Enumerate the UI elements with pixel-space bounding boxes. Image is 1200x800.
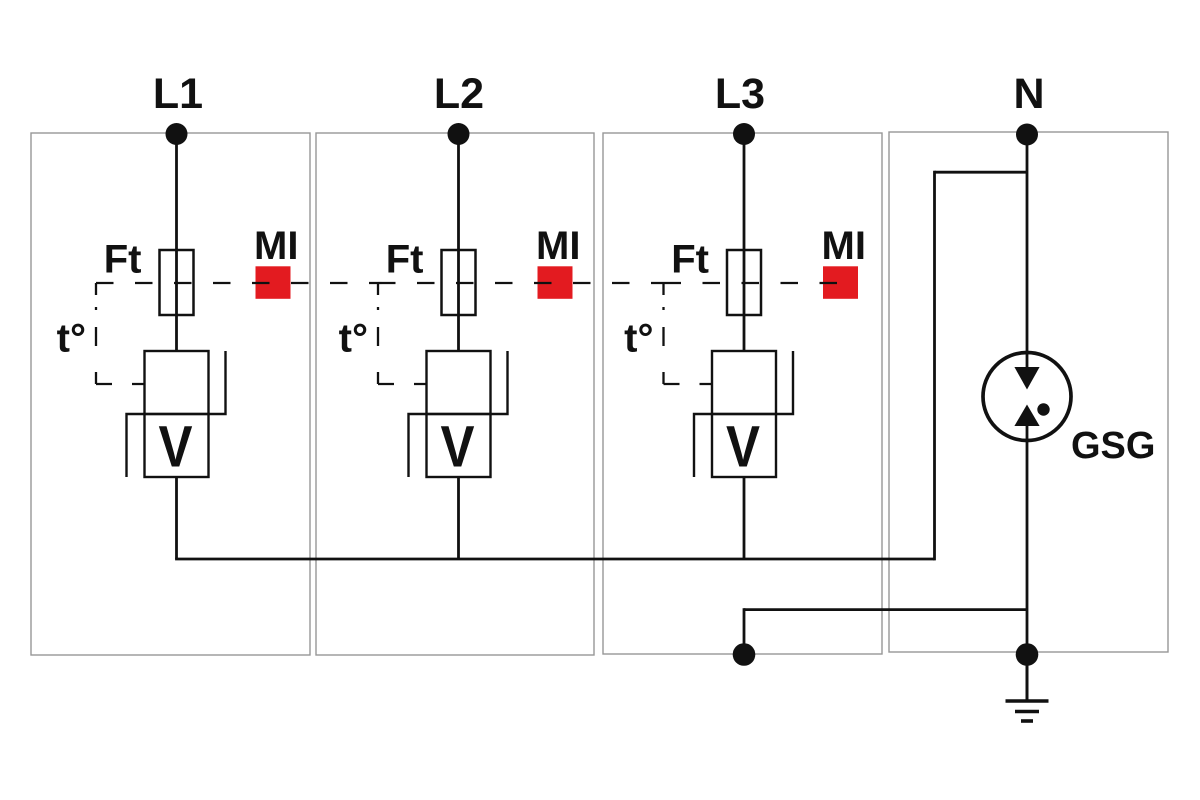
status indicator MI red square (module L3) bbox=[823, 266, 858, 299]
node ground junction (below N module) bbox=[1016, 643, 1039, 666]
varistor upper body (module L3) bbox=[712, 351, 776, 414]
varistor upper body (module L2) bbox=[427, 351, 491, 414]
svg-text:Ft: Ft bbox=[386, 238, 424, 282]
GSG lower electrode arrow (points up) bbox=[1014, 405, 1039, 427]
status indicator MI red square (module L2) bbox=[538, 266, 573, 299]
thermal sensing dashed bracket t-deg vertical (module L2) bbox=[377, 283, 379, 384]
svg-text:V: V bbox=[726, 415, 760, 480]
wire L2 terminal down through fuse to varistor bbox=[457, 134, 460, 351]
thermal sensing dashed link to varistor (module L3) bbox=[664, 383, 713, 385]
ground symbol bar 1 bbox=[1006, 699, 1049, 703]
svg-text:Ft: Ft bbox=[104, 238, 142, 282]
fuse/thermal disconnect Ft (module L1) bbox=[160, 250, 194, 315]
wire earth terminal riser (bottom node up to link) bbox=[743, 608, 746, 654]
wire GSG bottom down to earth node bbox=[1026, 441, 1029, 655]
wire PE bus horizontal (varistor commons) bbox=[175, 558, 934, 561]
status indicator MI red square (module L1) bbox=[256, 266, 291, 299]
svg-text:t°: t° bbox=[339, 317, 368, 361]
thermal sensing dashed link to varistor (module L1) bbox=[96, 383, 145, 385]
GSG wire from lower electrode bbox=[1026, 425, 1029, 442]
svg-text:t°: t° bbox=[57, 317, 86, 361]
varistor disconnect bracket right (module L3) bbox=[776, 351, 793, 414]
wire L3 terminal down through fuse to varistor bbox=[743, 134, 746, 351]
dashed signalling line module 2 (t-deg to MI, crosses fuse) bbox=[378, 282, 664, 284]
thermal sensing dashed bracket t-deg vertical (module L1) bbox=[95, 283, 97, 384]
varistor upper body (module L1) bbox=[145, 351, 209, 414]
wire N terminal down to GSG bbox=[1026, 135, 1029, 353]
wire L3 varistor bottom to PE bus bbox=[743, 477, 746, 559]
varistor disconnect bracket right (module L1) bbox=[209, 351, 226, 414]
fuse/thermal disconnect Ft (module L3) bbox=[727, 250, 761, 315]
svg-text:L3: L3 bbox=[715, 70, 765, 118]
node earth terminal (bottom centre) bbox=[733, 643, 756, 666]
ground symbol bar 2 bbox=[1015, 710, 1039, 714]
svg-text:L2: L2 bbox=[434, 70, 484, 118]
svg-text:MI: MI bbox=[536, 224, 580, 268]
varistor disconnect bracket left (module L2) bbox=[409, 414, 427, 477]
svg-text:MI: MI bbox=[254, 224, 298, 268]
gas discharge tube GSG circle bbox=[983, 353, 1071, 441]
ground symbol stem bbox=[1026, 660, 1029, 701]
wire PE bus riser up inside N module bbox=[933, 171, 936, 561]
svg-text:V: V bbox=[441, 415, 475, 480]
svg-text:GSG: GSG bbox=[1071, 425, 1155, 467]
svg-text:t°: t° bbox=[624, 317, 653, 361]
GSG upper electrode arrow (points down) bbox=[1014, 367, 1039, 390]
svg-text:Ft: Ft bbox=[671, 238, 709, 282]
node L1 terminal bbox=[166, 123, 188, 145]
svg-text:N: N bbox=[1013, 70, 1044, 118]
wire earth link horizontal to N/ground conductor bbox=[744, 608, 1027, 611]
module box 1 (L1 protection module outline) bbox=[31, 133, 310, 655]
thermal sensing dashed bracket t-deg vertical (module L3) bbox=[662, 283, 664, 384]
wire L1 terminal down through fuse to varistor bbox=[175, 134, 178, 351]
wire L1 varistor bottom to PE bus bbox=[175, 477, 178, 559]
svg-text:L1: L1 bbox=[153, 70, 203, 118]
varistor disconnect bracket left (module L1) bbox=[127, 414, 145, 477]
GSG gas-filled indicator dot bbox=[1037, 403, 1049, 415]
node L3 terminal bbox=[733, 123, 755, 145]
wire L2 varistor bottom to PE bus bbox=[457, 477, 460, 559]
varistor disconnect bracket right (module L2) bbox=[491, 351, 508, 414]
svg-text:V: V bbox=[159, 415, 193, 480]
varistor lower body V (module L3) bbox=[712, 414, 776, 477]
module box 3 (L3 protection module outline) bbox=[603, 133, 882, 654]
svg-text:MI: MI bbox=[822, 224, 866, 268]
dashed signalling line module 3 (t-deg to MI) bbox=[664, 282, 859, 284]
varistor lower body V (module L2) bbox=[427, 414, 491, 477]
node L2 terminal bbox=[448, 123, 470, 145]
GSG wire into upper electrode bbox=[1026, 352, 1029, 368]
module box 4 (N/GSG module outline) bbox=[889, 132, 1168, 652]
thermal sensing dashed link to varistor (module L2) bbox=[378, 383, 427, 385]
fuse/thermal disconnect Ft (module L2) bbox=[442, 250, 476, 315]
node N terminal bbox=[1016, 124, 1038, 146]
wire PE bus top link to N conductor bbox=[935, 171, 1028, 174]
varistor disconnect bracket left (module L3) bbox=[694, 414, 712, 477]
dashed signalling line module 1 (t-deg to MI, crosses fuse) bbox=[96, 282, 378, 284]
module box 2 (L2 protection module outline) bbox=[316, 133, 594, 655]
ground symbol bar 3 bbox=[1021, 719, 1033, 723]
varistor lower body V (module L1) bbox=[145, 414, 209, 477]
